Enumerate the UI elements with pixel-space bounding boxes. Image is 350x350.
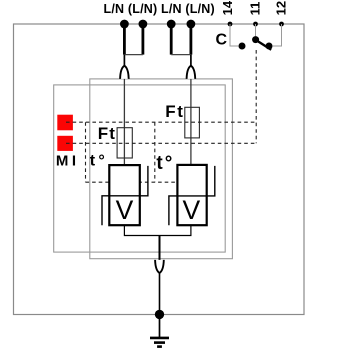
varistor V1 box — [109, 165, 140, 225]
terminal L/N 3 — [167, 20, 176, 29]
svg-text:t°: t° — [156, 153, 174, 174]
wire: feed to right plug — [190, 55, 192, 66]
varistor V1 disconnect step — [102, 166, 148, 225]
node earth junction — [155, 310, 164, 319]
wire: terminal 12 branch — [273, 24, 282, 46]
wire: staple joining terminals 1-2 — [124, 54, 142, 56]
wire: stub under terminal 4 — [189, 24, 192, 55]
terminal 14 — [228, 22, 233, 27]
dashed thermal box middle edge — [154, 122, 156, 182]
svg-text:Ft: Ft — [165, 102, 184, 121]
wire: terminal 14 branch — [230, 24, 238, 46]
terminal L/N 2 — [139, 20, 148, 29]
terminal L/N 1 — [120, 20, 129, 29]
fuse Ft left box — [117, 128, 132, 158]
dashed thermal box bottom edge — [86, 181, 177, 183]
dashed drop from contact C — [255, 50, 257, 143]
svg-text:14: 14 — [220, 0, 235, 15]
contact pole 12 — [266, 43, 273, 50]
svg-text:t°: t° — [90, 153, 108, 170]
terminal 12 — [279, 22, 284, 27]
wire: pin into bottom plug — [159, 236, 161, 268]
contact lever — [256, 40, 271, 50]
wire: varistor bottoms join — [124, 225, 190, 235]
wire: plug to earth node — [159, 273, 161, 314]
terminal 11 — [253, 22, 258, 27]
svg-text:11: 11 — [247, 2, 262, 16]
wire: stub under terminal 3 — [170, 24, 173, 55]
wire: stub under terminal 1 — [123, 24, 126, 55]
indicator window MI red 1 — [57, 115, 73, 131]
dashed link red1 to contact C — [66, 121, 256, 123]
terminal L/N 4 — [187, 20, 196, 29]
svg-text:V: V — [183, 195, 201, 225]
plug connector bottom (socket arch down) — [155, 260, 164, 273]
svg-text:C: C — [216, 31, 228, 48]
wire: pin through right Ft to varistor — [190, 72, 192, 165]
contact pole 14 — [239, 43, 246, 50]
dashed thermal box left edge — [85, 122, 87, 182]
wire: feed to left plug — [123, 55, 125, 66]
varistor V2 disconnect step — [169, 166, 215, 225]
ground symbol — [159, 318, 161, 337]
plug connector left (socket arch) — [120, 66, 129, 79]
svg-text:MI: MI — [56, 153, 80, 170]
enclosure box A (inner tall) — [90, 79, 233, 259]
wire: outer installation loop (L/N bus, left drop, right drop, earth bus) — [14, 24, 305, 315]
fuse Ft right box — [185, 107, 200, 138]
wire: pin through left Ft to varistor — [123, 72, 125, 166]
svg-text:V: V — [116, 195, 134, 225]
svg-text:L/N (L/N) L/N (L/N): L/N (L/N) L/N (L/N) — [103, 2, 214, 16]
wire: staple joining terminals 3-4 — [171, 54, 191, 56]
svg-text:Ft: Ft — [98, 124, 116, 143]
wire: terminal 11 branch — [255, 24, 257, 36]
svg-text:12: 12 — [274, 1, 289, 15]
contact pole common 11 — [252, 36, 259, 43]
plug connector right (socket arch) — [187, 66, 196, 79]
indicator window MI red 2 — [57, 136, 73, 151]
wire: stub under terminal 2 — [141, 24, 144, 55]
enclosure box B (outer wide) — [54, 85, 226, 252]
varistor V2 box — [177, 165, 206, 225]
dashed link red2 across — [66, 142, 256, 144]
